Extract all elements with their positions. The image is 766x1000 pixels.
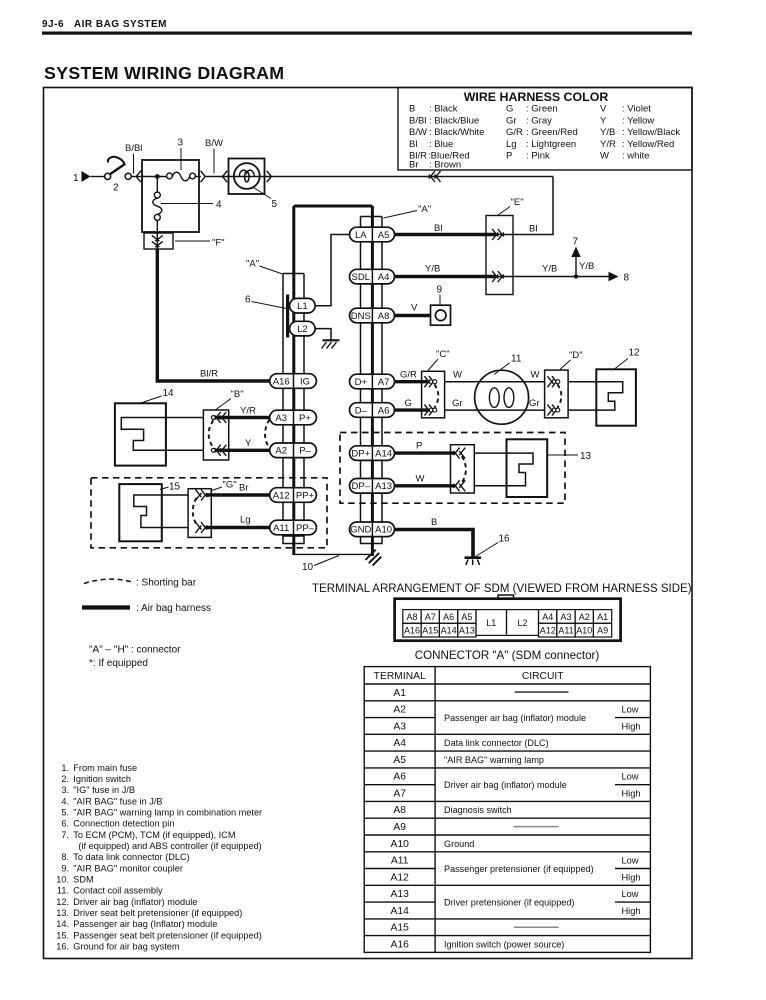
connector fork after lamp <box>267 171 272 182</box>
svg-text:3.: 3. <box>61 785 69 795</box>
svg-text:P: P <box>506 151 512 162</box>
D shorting bar arc <box>557 384 561 407</box>
passenger air bag module 14 <box>115 403 166 465</box>
connection detection pin bar <box>286 295 289 338</box>
wires H to module 13 <box>474 452 506 454</box>
svg-text:A10: A10 <box>391 839 410 850</box>
legend column 3 <box>600 104 680 162</box>
svg-text:A12: A12 <box>391 872 410 883</box>
svg-text:B: B <box>431 517 437 528</box>
ground symbol near L2 <box>323 339 340 341</box>
svg-text:A1: A1 <box>597 612 608 622</box>
B pin circles <box>211 416 215 420</box>
left harness thick line down to bottom jog <box>292 206 295 555</box>
chevrons in E (Bl) <box>492 229 498 237</box>
terminal id cells <box>391 688 410 951</box>
svg-text:L1: L1 <box>486 618 496 628</box>
svg-text:Y: Y <box>245 438 252 449</box>
connector fork before lamp <box>223 171 228 182</box>
svg-text:TERMINAL ARRANGEMENT OF SDM (V: TERMINAL ARRANGEMENT OF SDM (VIEWED FROM… <box>312 583 692 595</box>
svg-text:Bl: Bl <box>529 224 537 235</box>
svg-text:12.: 12. <box>56 897 69 907</box>
terminal A12|PP+ <box>270 488 317 503</box>
circuit table frame <box>364 667 650 953</box>
svg-text:Connection detection pin: Connection detection pin <box>73 819 174 829</box>
terminal DP+|A14 <box>350 446 395 461</box>
arrow 8 (to DLC) <box>609 272 619 281</box>
svg-text:GND: GND <box>350 525 371 536</box>
svg-text:Driver pretensioner (if equipp: Driver pretensioner (if equipped) <box>444 898 574 908</box>
svg-text:1.: 1. <box>61 763 69 773</box>
SDM face pin labels row 2 <box>404 626 608 636</box>
svg-text:Gr: Gr <box>452 398 463 409</box>
svg-text:DNS: DNS <box>351 311 371 322</box>
svg-text:Y/B: Y/B <box>542 264 557 275</box>
svg-text:A8: A8 <box>393 805 406 816</box>
svg-text:"A" – "H" : connector: "A" – "H" : connector <box>89 645 181 656</box>
H shorting bar arc <box>462 456 466 482</box>
connector C box <box>422 371 445 418</box>
svg-text:Low: Low <box>621 705 638 715</box>
SDM connector top notch <box>498 595 514 599</box>
svg-text:A7: A7 <box>425 612 436 622</box>
svg-text:A14: A14 <box>391 906 410 917</box>
svg-text:"C": "C" <box>436 349 450 360</box>
svg-text:G/R: G/R <box>506 127 523 138</box>
svg-text:D–: D– <box>355 405 368 416</box>
svg-text:High: High <box>621 872 640 882</box>
svg-text:D+: D+ <box>355 377 368 388</box>
svg-text:: Blue: : Blue <box>429 139 453 150</box>
svg-text:High: High <box>621 721 640 731</box>
squib meander in 13 <box>507 453 534 486</box>
terminal A11|PP- <box>270 520 317 535</box>
squib meander in 15 <box>134 495 162 528</box>
svg-text:PP–: PP– <box>296 523 315 534</box>
svg-text:4.: 4. <box>61 796 69 806</box>
wire W A13 to H (thick) <box>395 484 455 487</box>
svg-text:A3: A3 <box>560 612 571 622</box>
svg-text:CIRCUIT: CIRCUIT <box>522 671 564 682</box>
diagram outer border <box>44 88 693 959</box>
svg-text:B: B <box>409 104 415 115</box>
svg-text:Y/R: Y/R <box>600 139 616 150</box>
terminal A3|P+ <box>270 410 317 425</box>
terminal L2 <box>290 321 316 336</box>
SDM face pin labels row 1 <box>406 612 608 628</box>
svg-text:Ground for air bag system: Ground for air bag system <box>73 942 180 952</box>
svg-text:L1: L1 <box>297 301 308 312</box>
svg-text:"E": "E" <box>511 197 524 208</box>
wire harness color legend box <box>398 88 692 171</box>
junction node <box>155 174 160 179</box>
connector E box <box>486 216 513 295</box>
svg-text:: Air bag harness: : Air bag harness <box>136 603 211 614</box>
svg-text:W: W <box>416 474 425 485</box>
svg-text:Br: Br <box>409 160 419 171</box>
svg-text:A13: A13 <box>391 889 410 900</box>
svg-text:A3: A3 <box>393 721 406 732</box>
svg-text:: Pink: : Pink <box>526 151 550 162</box>
svg-text:Driver seat belt pretensioner: Driver seat belt pretensioner (if equipp… <box>73 908 242 918</box>
junction node 7/8 <box>574 274 578 278</box>
svg-text:A16: A16 <box>404 626 420 636</box>
wire L2 to ground <box>315 329 331 340</box>
svg-text:Contact coil assembly: Contact coil assembly <box>73 886 163 896</box>
svg-text:16.: 16. <box>56 942 69 952</box>
low/high sub-cells <box>621 705 640 916</box>
svg-text:4: 4 <box>216 200 222 211</box>
svg-text:SYSTEM WIRING DIAGRAM: SYSTEM WIRING DIAGRAM <box>44 63 284 83</box>
wire W C to coil <box>445 381 475 383</box>
svg-text:Lg: Lg <box>240 515 251 526</box>
svg-text:Data link connector (DLC): Data link connector (DLC) <box>444 738 549 748</box>
wire fuse3 to right edge <box>195 176 200 178</box>
svg-text:: Green: : Green <box>526 104 558 115</box>
svg-text:(if equipped) and ABS controll: (if equipped) and ABS controller (if equ… <box>78 841 261 851</box>
wire G/R A7 to C (thick) <box>395 380 429 383</box>
svg-text:W: W <box>600 151 609 162</box>
svg-text:IG: IG <box>300 376 310 387</box>
svg-text:A14: A14 <box>375 448 392 459</box>
empty row dashes <box>515 691 569 693</box>
svg-text:: Black: : Black <box>429 104 458 115</box>
svg-text:: white: : white <box>622 151 649 162</box>
svg-text:"AIR BAG" warning lamp in comb: "AIR BAG" warning lamp in combination me… <box>73 808 262 818</box>
svg-text:"IG" fuse in J/B: "IG" fuse in J/B <box>73 785 135 795</box>
fuse 3 (IG fuse) <box>167 173 173 179</box>
C shorting bar arc <box>434 384 438 407</box>
svg-text:10.: 10. <box>56 875 69 885</box>
G chevrons top <box>195 490 201 498</box>
squib meander in 14 <box>121 418 166 451</box>
svg-text:Low: Low <box>621 772 638 782</box>
svg-text:W: W <box>453 370 462 381</box>
svg-text:"A": "A" <box>418 204 431 215</box>
svg-text:"D": "D" <box>569 350 583 361</box>
svg-text:11: 11 <box>511 354 522 365</box>
svg-text:Ignition switch (power source): Ignition switch (power source) <box>444 939 564 949</box>
svg-text:13: 13 <box>580 451 592 462</box>
wire L1 to LA <box>315 235 349 306</box>
svg-text:SDM: SDM <box>73 875 93 885</box>
driver air bag module 12 <box>596 369 636 425</box>
svg-text:A4: A4 <box>393 738 406 749</box>
D chevrons + pins <box>547 376 553 384</box>
svg-text:Y/B: Y/B <box>600 127 615 138</box>
svg-text:A6: A6 <box>393 772 406 783</box>
svg-text:A9: A9 <box>393 822 406 833</box>
svg-text:9J-6 AIR BAG SYSTEM: 9J-6 AIR BAG SYSTEM <box>42 19 167 30</box>
svg-text:Bl/R: Bl/R <box>200 369 218 380</box>
wire Y/R B to A3 (thick) <box>215 416 270 419</box>
svg-text:A11: A11 <box>391 856 409 867</box>
svg-text:: Brown: : Brown <box>429 160 461 171</box>
dashed group box 13 (if equipped) <box>340 433 565 504</box>
terminal LA|A5 <box>350 227 395 242</box>
svg-text:10: 10 <box>302 562 314 573</box>
svg-text:DP+: DP+ <box>351 448 370 459</box>
contact coil assembly 11 <box>475 370 529 424</box>
svg-text:High: High <box>621 906 640 916</box>
C chevrons + pins <box>424 376 430 384</box>
svg-text:15: 15 <box>169 482 181 493</box>
svg-text:3: 3 <box>178 138 184 149</box>
svg-text:L2: L2 <box>297 324 308 335</box>
chevrons in E (Y/B) <box>492 271 498 279</box>
svg-text:Gr: Gr <box>506 115 517 126</box>
svg-text:7.: 7. <box>61 830 69 840</box>
legend column 2 <box>506 104 578 162</box>
terminal L1 <box>290 298 316 313</box>
svg-text:*: If equipped: *: If equipped <box>89 658 148 669</box>
H chevrons bottom <box>454 480 460 488</box>
right harness thick line <box>371 206 374 556</box>
G shorting bar arc <box>193 498 197 525</box>
svg-text:V: V <box>411 303 418 314</box>
AIR BAG warning lamp 5 <box>229 159 265 195</box>
wire J/B to lamp <box>206 176 229 178</box>
svg-text:P–: P– <box>299 446 311 457</box>
connector F box <box>144 233 173 249</box>
svg-text:: Black/Blue: : Black/Blue <box>429 115 479 126</box>
svg-text:A13: A13 <box>375 481 392 492</box>
G chevrons bottom <box>195 522 201 530</box>
svg-text:5.: 5. <box>61 808 69 818</box>
SDM harness top run <box>294 205 373 208</box>
SDM connector face outer <box>395 599 621 641</box>
svg-text:"AIR BAG" fuse in J/B: "AIR BAG" fuse in J/B <box>73 796 162 806</box>
shorting bar arc A3-A2 <box>265 420 270 449</box>
legend: shorting bar sample <box>84 579 132 583</box>
svg-text:Passenger pretensioner (if equ: Passenger pretensioner (if equipped) <box>444 864 594 874</box>
svg-text:A10: A10 <box>375 525 392 536</box>
connector D box <box>545 370 569 418</box>
svg-text:6.: 6. <box>61 819 69 829</box>
svg-text:: Yellow/Black: : Yellow/Black <box>622 127 680 138</box>
svg-text:Y/R: Y/R <box>240 406 256 417</box>
wire B A10 to ground 16 (thick) <box>395 530 474 558</box>
terminal DNS|A8 <box>350 308 395 323</box>
AIR BAG monitor coupler 9 <box>431 305 451 325</box>
B shorting bar arc <box>209 420 214 447</box>
svg-text:8: 8 <box>624 273 630 284</box>
svg-text:A4: A4 <box>378 272 390 283</box>
svg-text:A14: A14 <box>441 626 457 636</box>
terminal A2|P- <box>270 443 317 458</box>
B chevrons top <box>215 412 221 420</box>
svg-text:Y/B: Y/B <box>579 261 594 272</box>
connector fork at J/B right edge <box>201 171 206 182</box>
connector B box <box>203 410 228 460</box>
wires 15 to G <box>162 494 188 496</box>
ground 16 symbol <box>465 556 482 559</box>
terminal D+|A7 <box>350 374 395 389</box>
connector A left column body <box>282 274 284 537</box>
svg-text:LA: LA <box>355 230 367 241</box>
svg-text:A7: A7 <box>393 789 406 800</box>
svg-text:16: 16 <box>499 534 511 545</box>
svg-text:B/Bl: B/Bl <box>409 115 426 126</box>
svg-text:TERMINAL: TERMINAL <box>374 671 426 682</box>
label 13 callout <box>547 454 578 456</box>
legend column 1 <box>409 104 484 171</box>
terminal DP-|A13 <box>350 479 395 494</box>
wire arrow1 to switch <box>91 176 105 178</box>
svg-text:A9: A9 <box>597 626 608 636</box>
svg-text:A16: A16 <box>391 939 410 950</box>
inline connector chevrons on lamp wire <box>429 171 435 179</box>
svg-text:A6: A6 <box>378 405 390 416</box>
SDM face terminal cells <box>403 610 612 637</box>
svg-text:7: 7 <box>573 237 579 248</box>
svg-text:14.: 14. <box>56 919 69 929</box>
svg-text:SDL: SDL <box>352 272 370 283</box>
svg-text:A15: A15 <box>391 923 410 934</box>
junction block J/B box <box>142 160 199 232</box>
svg-text:B/W: B/W <box>205 138 223 149</box>
svg-text:A15: A15 <box>422 626 438 636</box>
fuse 4 (AIR BAG fuse) vertical <box>156 179 158 192</box>
svg-text:: Yellow: : Yellow <box>622 115 654 126</box>
svg-text:12: 12 <box>629 348 641 359</box>
arrow 7 (to ECM etc) <box>575 256 577 277</box>
connector G box <box>188 489 211 538</box>
svg-text:A12: A12 <box>273 490 290 501</box>
svg-text:"AIR BAG" warning lamp: "AIR BAG" warning lamp <box>444 755 544 765</box>
svg-text:: Gray: : Gray <box>526 115 552 126</box>
svg-text:Driver air bag (inflator) modu: Driver air bag (inflator) module <box>73 897 197 907</box>
dashed group box 15 (if equipped) <box>91 478 327 548</box>
svg-text:2.: 2. <box>61 774 69 784</box>
svg-text:13.: 13. <box>56 908 69 918</box>
svg-text:PP+: PP+ <box>296 490 315 501</box>
svg-text:"AIR BAG" monitor coupler: "AIR BAG" monitor coupler <box>73 863 183 873</box>
thick harness wire F down then right to A16 (Bl/R) <box>157 249 270 381</box>
svg-text:8.: 8. <box>61 852 69 862</box>
svg-text:"B": "B" <box>231 389 244 400</box>
svg-text:A10: A10 <box>576 626 592 636</box>
svg-text:G: G <box>506 104 513 115</box>
svg-text:A1: A1 <box>393 688 406 699</box>
wire P A14 to H (thick) <box>395 451 455 454</box>
svg-text:2: 2 <box>113 183 119 194</box>
wire G A6 to C (thick) <box>395 408 429 411</box>
wires D to module 12 <box>568 381 596 383</box>
svg-text:Low: Low <box>621 856 638 866</box>
squib meander in 12 <box>596 382 622 410</box>
wire Y/B SDM A4 to E (thick) <box>395 275 497 278</box>
svg-text:Bl: Bl <box>434 223 442 234</box>
svg-text:11.: 11. <box>57 886 69 896</box>
svg-text:: Yellow/Red: : Yellow/Red <box>622 139 674 150</box>
svg-text:14: 14 <box>163 388 175 399</box>
passenger pretensioner 15 <box>119 484 162 541</box>
wire inside J/B <box>142 176 167 178</box>
svg-text:Driver air bag (inflator) modu: Driver air bag (inflator) module <box>444 780 567 790</box>
wire Gr C to coil <box>445 409 475 411</box>
terminal D-|A6 <box>350 403 395 418</box>
svg-text:A12: A12 <box>540 626 556 636</box>
svg-text:V: V <box>600 104 607 115</box>
connector fork at J/B left edge <box>136 171 141 182</box>
svg-text:9.: 9. <box>61 863 69 873</box>
svg-text:Passenger air bag (inflator) m: Passenger air bag (inflator) module <box>444 713 586 723</box>
wire corner down to Bl return <box>496 177 553 235</box>
wire Y/B from E to node 7/8 <box>496 276 610 278</box>
svg-text:CONNECTOR "A" (SDM connector): CONNECTOR "A" (SDM connector) <box>415 649 600 662</box>
svg-text:Bl: Bl <box>409 139 417 150</box>
svg-text:A5: A5 <box>461 612 472 622</box>
svg-text:Ground: Ground <box>444 839 474 849</box>
svg-text:A2: A2 <box>579 612 590 622</box>
B chevrons bottom <box>215 445 221 453</box>
svg-text:To ECM (PCM), TCM (if equipped: To ECM (PCM), TCM (if equipped), ICM <box>73 830 235 840</box>
svg-text:A4: A4 <box>542 612 553 622</box>
svg-text:: Lightgreen: : Lightgreen <box>526 139 576 150</box>
svg-text:Low: Low <box>621 889 638 899</box>
wire Br G to A12 (thick) <box>206 493 270 496</box>
svg-text:G/R: G/R <box>400 370 417 381</box>
svg-text:5: 5 <box>272 199 278 210</box>
H chevrons top <box>454 448 460 456</box>
connector H box <box>451 445 475 493</box>
svg-text:6: 6 <box>245 295 251 306</box>
svg-text:Passenger air bag (Inflator) m: Passenger air bag (Inflator) module <box>73 919 217 929</box>
wire switch to J/B <box>131 176 144 178</box>
ground hatching at SDM harness bottom (node 10 area) <box>365 550 375 560</box>
wire lamp to corner at x553 <box>272 176 554 178</box>
svg-text:Y: Y <box>600 115 607 126</box>
ignition switch 2 <box>105 173 111 179</box>
svg-text:: Shorting bar: : Shorting bar <box>136 578 197 589</box>
svg-text:Y/B: Y/B <box>425 264 440 275</box>
svg-text:DP–: DP– <box>352 481 371 492</box>
svg-text:A2: A2 <box>275 446 287 457</box>
svg-text:"A": "A" <box>246 259 259 270</box>
svg-text:B/W: B/W <box>409 127 427 138</box>
svg-text:Diagnosis switch: Diagnosis switch <box>444 805 512 815</box>
svg-text:A5: A5 <box>378 230 390 241</box>
svg-text:A8: A8 <box>406 612 417 622</box>
wire Bl SDM A5 to E (thick) <box>395 233 497 236</box>
svg-text:A6: A6 <box>443 612 454 622</box>
svg-text:A16: A16 <box>273 376 290 387</box>
svg-text:9: 9 <box>437 285 443 296</box>
wires 14 to B <box>166 417 204 419</box>
legend: air bag harness sample <box>82 605 130 609</box>
driver pretensioner 13 <box>507 439 548 497</box>
svg-text:"F": "F" <box>212 238 225 249</box>
svg-text:A13: A13 <box>459 626 475 636</box>
svg-text:Br: Br <box>239 483 249 494</box>
svg-text:A7: A7 <box>378 377 390 388</box>
connector A right column body <box>360 217 362 537</box>
svg-text:Ignition switch: Ignition switch <box>73 774 131 784</box>
svg-text:A2: A2 <box>393 705 406 716</box>
terminal GND|A10 <box>350 522 395 537</box>
wire Lg G to A11 (thick) <box>206 526 270 529</box>
svg-text:Lg: Lg <box>506 139 517 150</box>
svg-text:A5: A5 <box>393 755 406 766</box>
svg-text:Gr: Gr <box>529 398 540 409</box>
svg-text:A3: A3 <box>275 413 287 424</box>
svg-text:From main fuse: From main fuse <box>73 763 137 773</box>
svg-text:G: G <box>405 398 412 409</box>
svg-text:Passenger seat belt pretension: Passenger seat belt pretensioner (if equ… <box>73 930 261 940</box>
terminal A16|IG <box>270 374 317 389</box>
svg-text:A11: A11 <box>558 626 573 636</box>
